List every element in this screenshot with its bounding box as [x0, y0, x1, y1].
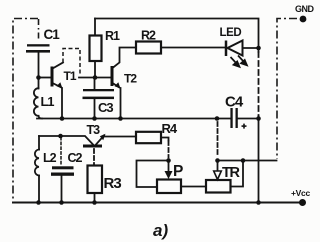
svg-text:T2: T2 — [124, 72, 137, 86]
svg-text:C2: C2 — [68, 151, 83, 165]
svg-text:L2: L2 — [43, 151, 57, 165]
svg-text:R1: R1 — [105, 29, 120, 43]
svg-text:C3: C3 — [98, 100, 113, 115]
svg-text:R2: R2 — [141, 29, 156, 43]
svg-text:GND: GND — [295, 4, 315, 14]
svg-text:a): a) — [153, 221, 168, 240]
svg-text:LED: LED — [220, 27, 242, 39]
svg-text:T3: T3 — [87, 123, 101, 137]
svg-text:R3: R3 — [104, 175, 122, 192]
svg-text:P: P — [173, 163, 183, 180]
svg-text:R4: R4 — [162, 121, 178, 136]
svg-text:TR: TR — [222, 165, 241, 181]
svg-text:L1: L1 — [41, 94, 55, 109]
svg-text:+Vcc: +Vcc — [291, 188, 310, 198]
svg-text:C4: C4 — [225, 94, 244, 111]
svg-text:C1: C1 — [44, 27, 61, 42]
svg-text:T1: T1 — [64, 69, 77, 83]
